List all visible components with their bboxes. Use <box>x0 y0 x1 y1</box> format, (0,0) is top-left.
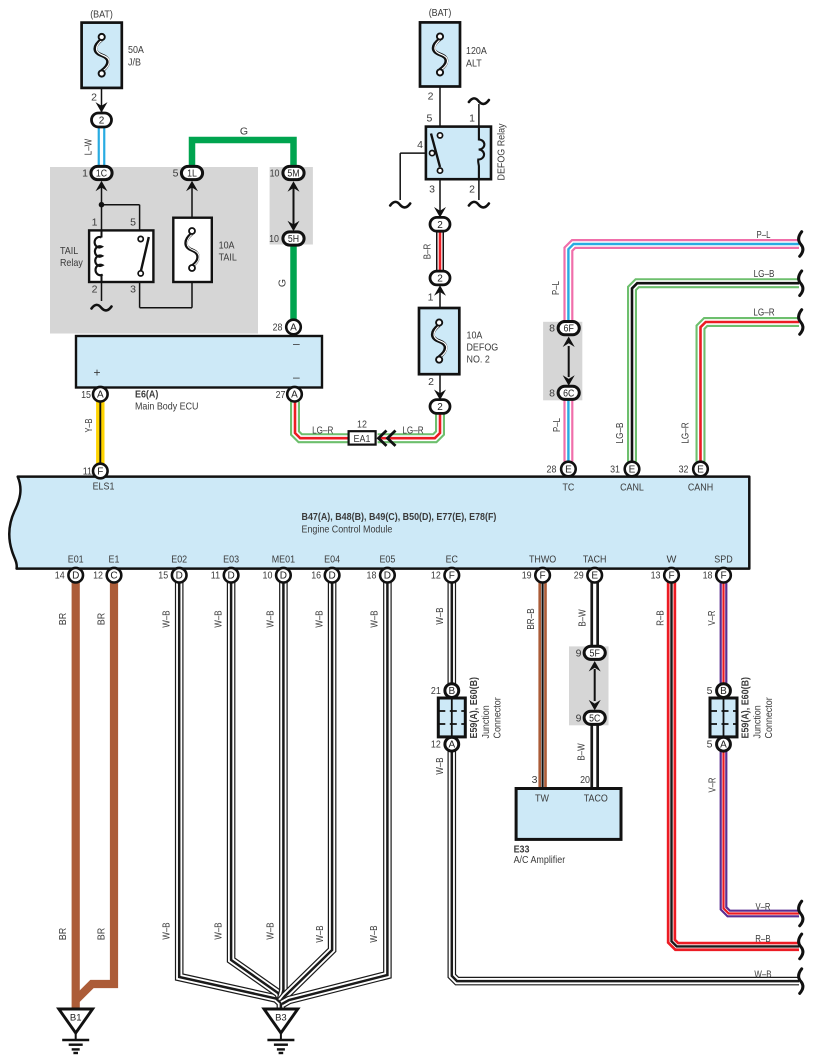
svg-text:9: 9 <box>576 712 582 724</box>
svg-text:5H: 5H <box>288 234 299 245</box>
svg-text:–: – <box>293 370 300 384</box>
svg-text:4: 4 <box>417 139 423 151</box>
svg-text:8: 8 <box>549 387 555 399</box>
svg-text:TW: TW <box>535 793 549 805</box>
svg-text:L–W: L–W <box>83 139 95 155</box>
svg-text:TAIL: TAIL <box>219 252 237 264</box>
svg-text:3: 3 <box>130 284 136 296</box>
svg-text:D: D <box>227 571 234 582</box>
svg-text:SPD: SPD <box>714 554 733 566</box>
svg-text:BR: BR <box>57 612 69 625</box>
svg-text:2: 2 <box>437 274 443 285</box>
svg-text:11: 11 <box>211 570 220 582</box>
svg-text:12: 12 <box>431 570 441 582</box>
svg-text:E02: E02 <box>171 554 187 566</box>
svg-text:16: 16 <box>311 570 321 582</box>
svg-text:BR: BR <box>57 927 69 940</box>
svg-text:10: 10 <box>270 168 280 180</box>
svg-text:W: W <box>667 554 677 566</box>
svg-text:20: 20 <box>580 774 590 786</box>
svg-text:5: 5 <box>426 113 432 125</box>
svg-text:W–B: W–B <box>265 610 277 627</box>
svg-text:5M: 5M <box>287 169 299 180</box>
svg-text:W–B: W–B <box>754 969 771 981</box>
svg-text:E: E <box>591 571 598 582</box>
svg-text:D: D <box>72 571 79 582</box>
svg-text:5F: 5F <box>590 648 600 659</box>
svg-text:Y–B: Y–B <box>83 418 95 432</box>
svg-text:A: A <box>291 390 298 401</box>
svg-text:1: 1 <box>469 113 475 125</box>
svg-text:3: 3 <box>429 184 435 196</box>
svg-text:E: E <box>565 465 572 476</box>
svg-text:E: E <box>697 465 704 476</box>
svg-text:–: – <box>293 337 300 351</box>
svg-text:15: 15 <box>158 570 168 582</box>
svg-text:THWO: THWO <box>529 554 556 566</box>
svg-text:ALT: ALT <box>466 58 482 70</box>
svg-text:B–W: B–W <box>577 609 589 626</box>
svg-text:W–B: W–B <box>212 610 224 627</box>
svg-text:1L: 1L <box>187 169 197 180</box>
svg-text:10A: 10A <box>467 330 483 342</box>
svg-text:BR: BR <box>95 612 107 625</box>
svg-text:21: 21 <box>431 685 441 697</box>
svg-text:12: 12 <box>357 419 367 431</box>
svg-text:Main Body ECU: Main Body ECU <box>135 401 199 413</box>
svg-text:3: 3 <box>532 774 538 786</box>
svg-text:V–R: V–R <box>707 777 719 792</box>
svg-text:A/C Amplifier: A/C Amplifier <box>514 854 566 866</box>
svg-text:2: 2 <box>437 220 443 231</box>
svg-text:LG–R: LG–R <box>402 425 424 437</box>
svg-text:10: 10 <box>269 233 279 245</box>
svg-text:A: A <box>97 390 104 401</box>
svg-text:28: 28 <box>273 322 283 334</box>
svg-text:D: D <box>328 571 335 582</box>
svg-text:5: 5 <box>130 217 136 229</box>
svg-text:1: 1 <box>92 217 98 229</box>
svg-text:W–B: W–B <box>369 610 381 627</box>
svg-text:DEFOG: DEFOG <box>467 342 499 354</box>
svg-text:ELS1: ELS1 <box>93 481 115 493</box>
svg-text:2: 2 <box>99 116 105 127</box>
svg-text:11: 11 <box>83 466 92 478</box>
svg-text:W–B: W–B <box>368 925 380 942</box>
svg-text:12: 12 <box>431 739 441 751</box>
svg-text:2: 2 <box>437 402 443 413</box>
svg-text:2: 2 <box>92 284 98 296</box>
svg-text:1: 1 <box>428 292 434 304</box>
svg-text:13: 13 <box>651 570 661 582</box>
svg-text:G: G <box>240 126 248 138</box>
svg-text:F: F <box>720 571 726 582</box>
svg-text:6F: 6F <box>564 324 574 335</box>
svg-text:F: F <box>97 467 103 478</box>
svg-text:B1: B1 <box>70 1013 82 1024</box>
svg-text:EC: EC <box>446 554 459 566</box>
svg-text:18: 18 <box>703 570 713 582</box>
svg-text:18: 18 <box>367 570 377 582</box>
svg-text:E6(A): E6(A) <box>135 389 158 401</box>
svg-text:5: 5 <box>173 168 179 180</box>
svg-text:B47(A), B48(B), B49(C), B50(D): B47(A), B48(B), B49(C), B50(D), E77(E), … <box>302 511 497 523</box>
svg-text:EA1: EA1 <box>354 433 371 445</box>
svg-text:2: 2 <box>428 376 434 388</box>
svg-text:19: 19 <box>522 570 532 582</box>
svg-text:LG–B: LG–B <box>754 268 775 280</box>
svg-text:Connector: Connector <box>763 697 775 739</box>
svg-text:B3: B3 <box>275 1013 287 1024</box>
svg-text:15: 15 <box>81 389 91 401</box>
svg-text:W–B: W–B <box>212 922 224 939</box>
svg-text:R–B: R–B <box>755 933 770 945</box>
svg-text:B–W: B–W <box>576 743 588 760</box>
svg-text:5C: 5C <box>589 713 600 724</box>
svg-text:32: 32 <box>679 464 689 476</box>
svg-text:W–B: W–B <box>313 610 325 627</box>
svg-text:9: 9 <box>576 647 582 659</box>
svg-text:Engine Control Module: Engine Control Module <box>302 524 393 536</box>
svg-text:Junction: Junction <box>752 705 764 738</box>
svg-text:NO. 2: NO. 2 <box>467 354 490 366</box>
svg-text:10: 10 <box>263 570 273 582</box>
svg-text:TACO: TACO <box>584 793 608 805</box>
svg-text:LG–R: LG–R <box>680 422 692 444</box>
svg-text:LG–B: LG–B <box>614 423 626 444</box>
svg-text:29: 29 <box>574 570 584 582</box>
svg-text:1C: 1C <box>96 169 107 180</box>
svg-text:8: 8 <box>549 323 555 335</box>
svg-text:E05: E05 <box>379 554 395 566</box>
svg-text:R–B: R–B <box>655 610 667 625</box>
svg-text:B–R: B–R <box>422 243 434 259</box>
svg-text:A: A <box>448 740 455 751</box>
svg-text:J/B: J/B <box>128 57 141 69</box>
svg-text:P–L: P–L <box>757 229 771 241</box>
svg-text:BR: BR <box>95 927 107 940</box>
svg-text:F: F <box>540 571 546 582</box>
svg-text:5: 5 <box>707 685 713 697</box>
svg-text:LG–R: LG–R <box>312 425 334 437</box>
svg-text:(BAT): (BAT) <box>429 7 452 19</box>
svg-text:DEFOG Relay: DEFOG Relay <box>496 123 508 181</box>
svg-text:W–B: W–B <box>434 757 446 774</box>
svg-text:BR–B: BR–B <box>525 608 537 629</box>
svg-text:E59(A), E60(B): E59(A), E60(B) <box>740 677 752 739</box>
svg-text:14: 14 <box>55 570 65 582</box>
svg-text:B: B <box>720 686 727 697</box>
svg-text:W–B: W–B <box>161 922 173 939</box>
svg-text:10A: 10A <box>219 240 235 252</box>
svg-text:C: C <box>110 571 117 582</box>
svg-text:50A: 50A <box>128 44 144 56</box>
svg-text:W–B: W–B <box>265 922 277 939</box>
svg-text:2: 2 <box>469 184 475 196</box>
svg-text:D: D <box>176 571 183 582</box>
svg-text:+: + <box>93 366 100 380</box>
svg-text:P–L: P–L <box>551 418 563 432</box>
svg-text:W–B: W–B <box>314 925 326 942</box>
svg-text:A: A <box>290 323 297 334</box>
svg-text:E04: E04 <box>324 554 340 566</box>
svg-text:31: 31 <box>610 464 620 476</box>
svg-text:F: F <box>668 571 674 582</box>
svg-text:ME01: ME01 <box>272 554 295 566</box>
svg-text:TC: TC <box>562 482 574 494</box>
svg-text:28: 28 <box>547 464 557 476</box>
svg-text:LG–R: LG–R <box>753 307 775 319</box>
svg-text:V–R: V–R <box>706 610 718 625</box>
svg-text:(BAT): (BAT) <box>90 9 113 21</box>
svg-text:G: G <box>277 279 289 287</box>
svg-text:E01: E01 <box>68 554 84 566</box>
svg-text:W–B: W–B <box>434 607 446 624</box>
svg-text:TACH: TACH <box>583 554 607 566</box>
svg-text:E59(A), E60(B): E59(A), E60(B) <box>468 677 480 739</box>
svg-text:TAIL: TAIL <box>60 245 78 257</box>
svg-text:CANL: CANL <box>620 482 644 494</box>
svg-text:E: E <box>629 465 636 476</box>
svg-text:2: 2 <box>428 91 434 103</box>
svg-text:120A: 120A <box>466 45 487 57</box>
svg-text:2: 2 <box>91 92 97 104</box>
svg-text:D: D <box>384 571 391 582</box>
svg-text:1: 1 <box>82 168 88 180</box>
svg-text:Relay: Relay <box>60 257 83 269</box>
svg-text:Connector: Connector <box>491 697 503 739</box>
svg-text:V–R: V–R <box>756 901 771 913</box>
svg-text:CANH: CANH <box>688 482 713 494</box>
svg-text:12: 12 <box>93 570 103 582</box>
svg-text:P–L: P–L <box>550 281 562 295</box>
svg-text:5: 5 <box>707 739 713 751</box>
svg-text:27: 27 <box>276 389 286 401</box>
svg-text:E1: E1 <box>109 554 120 566</box>
svg-text:Junction: Junction <box>480 705 492 738</box>
svg-text:6C: 6C <box>563 388 574 399</box>
svg-text:F: F <box>449 571 455 582</box>
svg-text:A: A <box>720 740 727 751</box>
svg-text:E03: E03 <box>223 554 239 566</box>
svg-text:D: D <box>280 571 287 582</box>
svg-text:B: B <box>448 686 455 697</box>
svg-text:W–B: W–B <box>161 610 173 627</box>
